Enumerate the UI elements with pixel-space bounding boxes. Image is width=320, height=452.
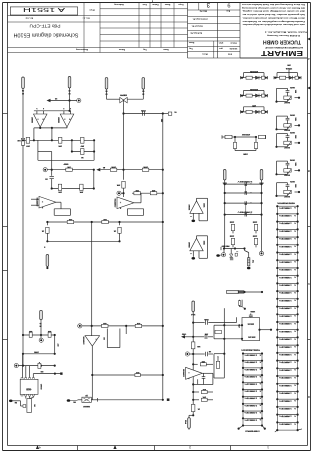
capacitor C1 [45, 170, 54, 189]
svg-text:OUT1: OUT1 [289, 86, 295, 88]
ladder RN1 resistor 2 [276, 213, 299, 222]
svg-text:10N: 10N [204, 333, 208, 335]
Tag Name row labels left table [119, 48, 169, 51]
svg-text:10K: 10K [17, 139, 21, 141]
resistor R26 [193, 360, 213, 366]
resistor R20 [47, 330, 51, 338]
revision row small labels [25, 9, 95, 20]
ground node pad [9, 400, 21, 404]
resistor R24 [135, 371, 141, 376]
resistor R10 [67, 218, 74, 224]
svg-text:47K: 47K [136, 322, 140, 325]
property notice paragraph [241, 3, 305, 26]
svg-text:CNY17: CNY17 [40, 384, 42, 390]
connector pin X5 [142, 78, 145, 95]
svg-text:100K 1%: 100K 1% [279, 245, 292, 247]
svg-text:GND AGND: GND AGND [244, 430, 260, 433]
svg-text:10N: 10N [294, 184, 296, 188]
ladder RN1 bottom terminals [275, 429, 302, 432]
svg-text:Blatt Nr.: Blatt Nr. [199, 10, 207, 13]
svg-text:100N: 100N [229, 234, 234, 236]
svg-text:2N2222: 2N2222 [82, 405, 90, 407]
decoupling capacitor C5 [229, 234, 234, 247]
svg-text:47K: 47K [102, 322, 106, 325]
svg-text:10N: 10N [294, 117, 296, 121]
svg-text:REF: REF [237, 324, 239, 329]
ground pad node [67, 399, 78, 403]
test point TP1 [77, 98, 81, 102]
resistor R5 [66, 166, 73, 172]
svg-text:100K 1%: 100K 1% [279, 222, 292, 224]
svg-text:Auftrags-Nr.: Auftrags-Nr. [190, 32, 202, 35]
wire comparator outputs [34, 127, 67, 129]
supply rail C [19, 365, 56, 367]
svg-text:Q2: Q2 [84, 394, 88, 396]
svg-text:3: 3 [63, 107, 64, 109]
svg-text:100K 1%: 100K 1% [244, 418, 257, 420]
inductor loop L2 [238, 300, 246, 310]
svg-text:100K 1%: 100K 1% [279, 361, 292, 363]
resistor R22 [102, 322, 109, 328]
output rail [98, 399, 170, 401]
svg-text:Datum: Datum [119, 48, 125, 51]
svg-text:X4: X4 [33, 404, 36, 407]
wire U5 output [91, 346, 93, 400]
resistor R3 [80, 137, 85, 147]
resistor network RN2 header label [241, 348, 260, 350]
svg-text:100N: 100N [250, 310, 255, 312]
wire pin to rail [40, 321, 42, 335]
rung component M1 [224, 180, 263, 186]
connector pin X7 [259, 170, 264, 184]
ladder RN1 resistor 6 [276, 244, 299, 253]
svg-text:18.06.96: 18.06.96 [229, 47, 238, 49]
analog bus [192, 312, 194, 416]
feedback loop U2b [127, 209, 143, 216]
svg-text:X5:2: X5:2 [190, 313, 195, 315]
svg-text:Datum: Datum [230, 41, 236, 44]
op-amp U3a [188, 201, 204, 214]
sheet cells labels [199, 10, 230, 13]
ladder RN1 resistor 28 [276, 414, 299, 423]
svg-text:OUT3: OUT3 [289, 131, 295, 133]
feedback loop rect [102, 329, 120, 348]
RC snubber group K3 [241, 104, 268, 114]
svg-text:4N35: 4N35 [25, 387, 31, 390]
svg-text:100K 1%: 100K 1% [244, 361, 257, 363]
svg-text:gepr.: gepr. [218, 41, 223, 43]
ladder RN2 resistor 4 [242, 374, 263, 382]
svg-text:T1: T1 [173, 111, 176, 113]
op-amp U6 [182, 367, 202, 379]
wire to integrator [100, 169, 164, 171]
feedback loop U2a [54, 209, 70, 216]
wire input node A [47, 169, 95, 171]
resistor R21 [21, 401, 26, 408]
ladder RN1 resistor 27 [276, 406, 299, 415]
ladder RN1 resistor 8 [276, 259, 299, 268]
wire IC feeds [23, 354, 34, 380]
supply rail B [22, 351, 56, 355]
capacitor C8 [38, 361, 41, 369]
resistor R8 [58, 184, 62, 193]
resistor R14 [116, 181, 125, 197]
svg-text:LM393: LM393 [57, 117, 59, 124]
right margin centering arrow [307, 38, 310, 90]
right margin zone letters [308, 57, 310, 397]
svg-text:MC34072: MC34072 [182, 369, 185, 377]
svg-text:2: 2 [189, 446, 191, 449]
op-amp U2b [113, 197, 134, 209]
connector pin X4 [105, 78, 108, 95]
op-amp U3b [188, 238, 204, 251]
svg-text:47R 10N: 47R 10N [250, 70, 258, 73]
svg-text:22K: 22K [68, 218, 72, 220]
right margin zone ticks [308, 114, 311, 340]
svg-text:MC34072: MC34072 [82, 336, 85, 344]
ladder RN1 resistor 9 [276, 267, 299, 276]
svg-text:10K: 10K [67, 166, 71, 168]
svg-text:10K: 10K [151, 189, 155, 191]
relay drive rail [221, 245, 246, 251]
svg-text:47R 10N: 47R 10N [250, 88, 258, 91]
svg-text:100K 1%: 100K 1% [244, 397, 257, 399]
ladder RN1 resistor 14 [276, 306, 299, 315]
svg-text:100N 63V: 100N 63V [237, 211, 253, 213]
resistor R23 [135, 322, 142, 328]
svg-text:X5:4: X5:4 [184, 420, 187, 425]
svg-text:3: 3 [206, 1, 210, 8]
resistor R6 [110, 166, 117, 172]
svg-text:P6b ETF-CPU: P6b ETF-CPU [30, 23, 61, 28]
svg-text:47K: 47K [79, 191, 83, 194]
transistor Q1 [163, 111, 177, 116]
net arrow node PE [47, 97, 77, 102]
svg-text:1K: 1K [113, 229, 116, 231]
svg-text:EN: EN [40, 370, 43, 372]
wire sense branch [123, 103, 125, 180]
capacitor C11 [193, 350, 213, 356]
svg-text:OUT4: OUT4 [289, 159, 295, 162]
connector X9 [27, 399, 36, 413]
loop resistor R17 [214, 325, 224, 339]
decoupling capacitor C3 [229, 220, 234, 233]
svg-text:10K: 10K [47, 330, 51, 332]
svg-text:100N: 100N [34, 351, 39, 353]
op-amp input rail [34, 110, 71, 112]
bottom margin zone numerals [39, 446, 269, 449]
svg-text:100K 1%: 100K 1% [279, 338, 292, 340]
wire rail drop [55, 335, 59, 354]
driver rail [92, 374, 164, 376]
comparator U1b [57, 114, 74, 127]
svg-text:Ers. d.:: Ers. d.: [82, 17, 89, 20]
ladder RN1 resistor 17 [276, 329, 299, 338]
svg-text:+5V: +5V [56, 343, 58, 347]
connector pin X3 [43, 246, 48, 270]
svg-text:LM358: LM358 [188, 204, 190, 210]
svg-text:100K 1%: 100K 1% [244, 390, 257, 392]
resistor R0 on supply bus [17, 138, 25, 145]
svg-text:1: 1 [267, 446, 269, 449]
wire comparator feed [82, 325, 164, 327]
svg-text:100K 1%: 100K 1% [279, 415, 292, 417]
diode D3 [235, 252, 238, 256]
resistor R2 [58, 137, 62, 147]
comparator U1a [31, 114, 48, 127]
filter bridge K11 [223, 310, 272, 341]
svg-text:1N: 1N [208, 350, 211, 352]
svg-text:TUCKER GMBH: TUCKER GMBH [263, 38, 301, 44]
net arrow IN1 [96, 166, 105, 171]
ladder RN1 resistor 23 [276, 375, 299, 384]
svg-text:Benennung: Benennung [75, 48, 88, 50]
svg-text:100K 1%: 100K 1% [279, 368, 292, 370]
signal bus right [162, 114, 164, 400]
divider rail [38, 150, 95, 160]
name and date row labels [188, 41, 238, 56]
svg-text:100K 1%: 100K 1% [244, 354, 257, 356]
wire left supply bus [22, 90, 24, 366]
bottom margin zone ticks [78, 446, 231, 451]
svg-text:100K: 100K [202, 241, 204, 246]
driver cell K5 [275, 86, 300, 103]
wire IC bottom pins [26, 396, 34, 399]
svg-text:10K: 10K [116, 184, 120, 186]
wire U2b output net [132, 192, 164, 194]
svg-text:100N: 100N [204, 318, 209, 320]
svg-text:10K: 10K [196, 345, 200, 347]
ladder rail right [261, 182, 263, 252]
company address lines [264, 31, 307, 38]
svg-text:Datum: Datum [152, 3, 158, 6]
svg-text:100K 1%: 100K 1% [279, 322, 292, 324]
svg-text:100K 1%: 100K 1% [279, 314, 292, 316]
resistor R28 [193, 396, 213, 402]
capacitor C7 electrolytic [245, 249, 255, 270]
wire inverting node [193, 383, 198, 385]
connector pin X6 [222, 170, 227, 184]
svg-text:Name: Name [188, 41, 194, 43]
svg-text:100K 1%: 100K 1% [279, 284, 292, 286]
left margin zone ticks [3, 114, 8, 340]
ladder RN2 resistor 5 [242, 381, 263, 389]
svg-text:L1: L1 [54, 97, 57, 99]
svg-text:10K: 10K [201, 360, 205, 362]
svg-text:1K: 1K [197, 408, 200, 410]
ladder RN1 resistor 24 [276, 383, 299, 392]
diode pair D1 [119, 94, 127, 103]
ladder RN2 resistor 10 [242, 417, 263, 425]
svg-text:LM393: LM393 [31, 117, 33, 124]
svg-text:100K 1%: 100K 1% [279, 253, 292, 255]
svg-text:D-35394 Giessen Germany: D-35394 Giessen Germany [266, 34, 300, 37]
title text Schematic diagram E510H [13, 31, 78, 37]
feedback rail U2a [51, 170, 95, 190]
test point TP9 [185, 352, 193, 356]
top margin centering tick [152, 0, 154, 2]
filter network K10 [222, 133, 266, 156]
svg-text:1M: 1M [102, 337, 104, 340]
company logo EMHART [240, 49, 307, 58]
op-amp U2a [35, 196, 56, 208]
svg-text:100K 1%: 100K 1% [244, 404, 257, 406]
ladder RN2 resistor 3 [242, 367, 263, 375]
svg-text:2: 2 [70, 107, 71, 109]
ladder RN1 resistor 20 [276, 352, 299, 361]
svg-text:100N 63V: 100N 63V [237, 180, 253, 182]
svg-text:100K 1%: 100K 1% [279, 214, 292, 216]
svg-text:Tag: Tag [189, 47, 193, 49]
ladder RN2 resistor 9 [242, 410, 263, 418]
rung component M3 [224, 201, 263, 205]
pin stubs into comparator pair [37, 111, 71, 114]
driver cell K9 [275, 180, 300, 197]
RC snubber group K1 [241, 70, 268, 80]
svg-text:Für diese Zeichnung und das Ge: Für diese Zeichnung und das Gerät behalt… [241, 3, 305, 6]
rung chain wire [245, 184, 247, 215]
ladder RN1 resistor 4 [276, 228, 299, 237]
ladder RN2 resistor 1 [242, 352, 263, 360]
title block grid lines [8, 2, 307, 58]
svg-text:100K 1%: 100K 1% [279, 345, 292, 347]
wire logic out [33, 370, 62, 375]
svg-text:Name: Name [164, 3, 170, 5]
svg-text:darf sie weder vervielfältigt: darf sie weder vervielfältigt noch Dritt… [242, 10, 305, 13]
optocoupler U4 [20, 378, 42, 396]
svg-text:+: + [250, 201, 251, 203]
op-amp U5 [82, 326, 100, 346]
jumper connector J1 [227, 290, 264, 293]
svg-text:B: B [308, 169, 310, 171]
feedback loop U3a [197, 198, 208, 221]
svg-text:100N: 100N [141, 109, 146, 111]
svg-text:Zeichnungs-Nr.: Zeichnungs-Nr. [192, 18, 208, 21]
drawing number labels [190, 18, 208, 35]
junction [68, 99, 70, 101]
diode D2 [230, 249, 234, 260]
ladder RN1 resistor 11 [276, 282, 299, 291]
ladder RN2 bottom terminals [238, 424, 266, 432]
ground stub U3a [190, 213, 195, 222]
svg-text:100K 1%: 100K 1% [279, 206, 292, 208]
test point TP7 [14, 364, 18, 368]
resistor R19 [28, 330, 32, 338]
ladder RN1 resistor 19 [276, 344, 299, 353]
svg-text:100K 1%: 100K 1% [244, 375, 257, 377]
bias rail [22, 139, 95, 141]
svg-text:100K 1%: 100K 1% [279, 384, 292, 386]
svg-text:Anz.: Anz. [225, 10, 230, 13]
connector pin X2 [68, 77, 71, 95]
svg-text:VREF: VREF [63, 162, 69, 164]
net arrow GND1 [181, 333, 193, 339]
bottom margin centering arrow marks [36, 445, 117, 449]
svg-text:100K 1%: 100K 1% [279, 399, 292, 401]
svg-text:EMHART: EMHART [260, 49, 303, 56]
ladder RN2 resistor 8 [242, 403, 263, 411]
RC snubber group K4 [274, 64, 301, 80]
svg-text:5: 5 [217, 355, 218, 357]
svg-text:Name: Name [162, 48, 168, 50]
svg-text:6: 6 [43, 107, 44, 109]
svg-text:10N: 10N [294, 162, 296, 166]
svg-text:X2:1: X2:1 [222, 181, 227, 183]
svg-text:47u: 47u [251, 260, 254, 264]
svg-text:47R: 47R [252, 104, 256, 107]
svg-text:1/4W: 1/4W [243, 153, 248, 156]
svg-text:LM358: LM358 [188, 242, 190, 248]
wire output branch [223, 308, 225, 355]
resistor R7 [142, 166, 149, 172]
wire from X4 [107, 91, 120, 100]
doc number box A 1551H [10, 6, 77, 15]
wire from X5 [127, 89, 143, 99]
svg-text:+: + [250, 191, 251, 193]
svg-text:10K 1%: 10K 1% [248, 335, 256, 337]
svg-text:Änderung: Änderung [114, 3, 124, 6]
svg-text:100K 1%: 100K 1% [279, 268, 292, 270]
resistor R12 [41, 222, 49, 241]
test point TP8 [78, 324, 82, 328]
svg-text:Zust.: Zust. [142, 3, 147, 6]
svg-text:100N: 100N [229, 220, 234, 222]
wire output drops [34, 128, 52, 140]
svg-text:Zuwiderhandlungen verpflichten: Zuwiderhandlungen verpflichten zu Schade… [242, 20, 305, 23]
transistor Q2 [78, 394, 98, 407]
svg-text:REL 24V: REL 24V [221, 245, 230, 248]
ladder RN1 resistor 25 [276, 390, 299, 399]
svg-text:S: S [43, 246, 45, 248]
revision strip header labels [114, 3, 184, 6]
svg-text:OUT5: OUT5 [289, 180, 295, 182]
resistor R16 [150, 189, 157, 195]
svg-text:100K 1%: 100K 1% [244, 382, 257, 384]
resistor R11 [102, 218, 109, 224]
capacitor C9 [193, 317, 236, 325]
resistor R25 [191, 342, 200, 349]
loop resistor R18 [214, 354, 224, 378]
wire divider risers [38, 140, 94, 160]
svg-text:Urspr.: Urspr. [89, 9, 95, 12]
ladder RN1 resistor 22 [276, 367, 299, 376]
driver cell K7 [275, 131, 300, 148]
sheet count cell numeral 3 [206, 1, 210, 8]
svg-text:9: 9 [227, 1, 230, 7]
svg-text:47K: 47K [58, 191, 62, 194]
test point TP3 [117, 191, 125, 195]
sheet number cell numeral 9 [227, 1, 230, 7]
ground stub U3b [190, 251, 195, 260]
ladder RN2 resistor 2 [242, 360, 263, 368]
svg-text:100K 1%: 100K 1% [279, 291, 292, 293]
svg-text:22K: 22K [103, 218, 107, 220]
svg-text:100K: 100K [111, 166, 116, 168]
driver cell K8 [275, 159, 300, 176]
svg-text:100K 1%: 100K 1% [279, 330, 292, 332]
svg-text:ET2: ET2 [227, 53, 232, 55]
svg-text:5: 5 [36, 107, 37, 109]
ladder RN1 resistor 3 [276, 221, 299, 230]
capacitor C2 [141, 109, 146, 116]
wire measuring branch [122, 112, 163, 114]
svg-text:10K: 10K [135, 189, 139, 191]
supply rail A [22, 334, 56, 336]
svg-text:04: 04 [21, 89, 24, 92]
svg-text:Entwurf Nr.: Entwurf Nr. [191, 25, 203, 28]
rung component M4 [224, 211, 263, 217]
wire op-amp U2a inputs [31, 199, 39, 205]
